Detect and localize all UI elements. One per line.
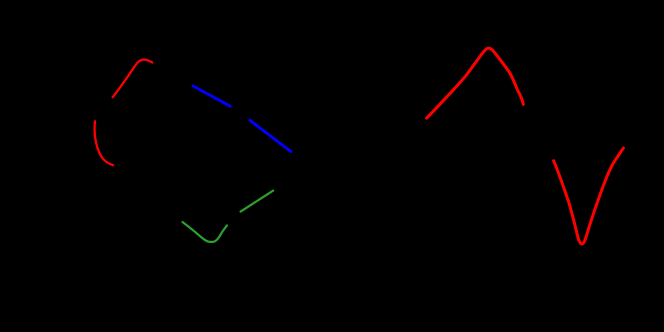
blue stroke (segment 2) <box>250 120 291 151</box>
red stroke (left shape, upper arc) <box>113 60 153 98</box>
green stroke (checkmark tail) <box>241 191 274 212</box>
red stroke (right curve, peak) <box>427 48 524 118</box>
blue stroke (segment 1) <box>193 86 230 106</box>
red stroke (right curve, V valley) <box>554 148 624 244</box>
green stroke (checkmark v part) <box>183 222 228 242</box>
red stroke (left shape, lower arc) <box>95 121 113 165</box>
